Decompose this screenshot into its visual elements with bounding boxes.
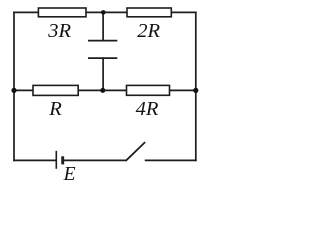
wire bottom middle segment [64,159,126,161]
wire bottom right segment [146,159,196,161]
svg-text:2R: 2R [137,20,160,42]
node junction dot top (cap to top rail) [101,10,106,15]
svg-text:4R: 4R [136,98,159,120]
node junction dot middle-left [11,88,16,93]
wire capacitor bottom stem [102,58,104,90]
wire right side [195,12,197,160]
switch S1 blade [126,143,144,161]
battery E long plate [55,151,57,169]
battery E short thick plate [61,156,64,164]
resistor R3 value R [33,85,78,95]
resistor R4 value 4R [127,85,170,95]
capacitor C1 top plate [88,40,117,42]
node junction dot middle-right [193,88,198,93]
wire left side [13,12,15,160]
svg-text:R: R [48,98,62,120]
wire middle rail [14,89,196,91]
resistor R2 value 2R [127,8,171,17]
capacitor C1 bottom plate [88,57,117,59]
wire capacitor top stem [102,12,104,40]
resistor R1 value 3R [38,8,86,17]
svg-text:3R: 3R [47,20,71,42]
svg-text:E: E [63,164,76,182]
node junction dot middle (cap to middle rail) [100,88,105,93]
wire bottom left segment [14,159,56,161]
wire top rail [14,11,196,13]
